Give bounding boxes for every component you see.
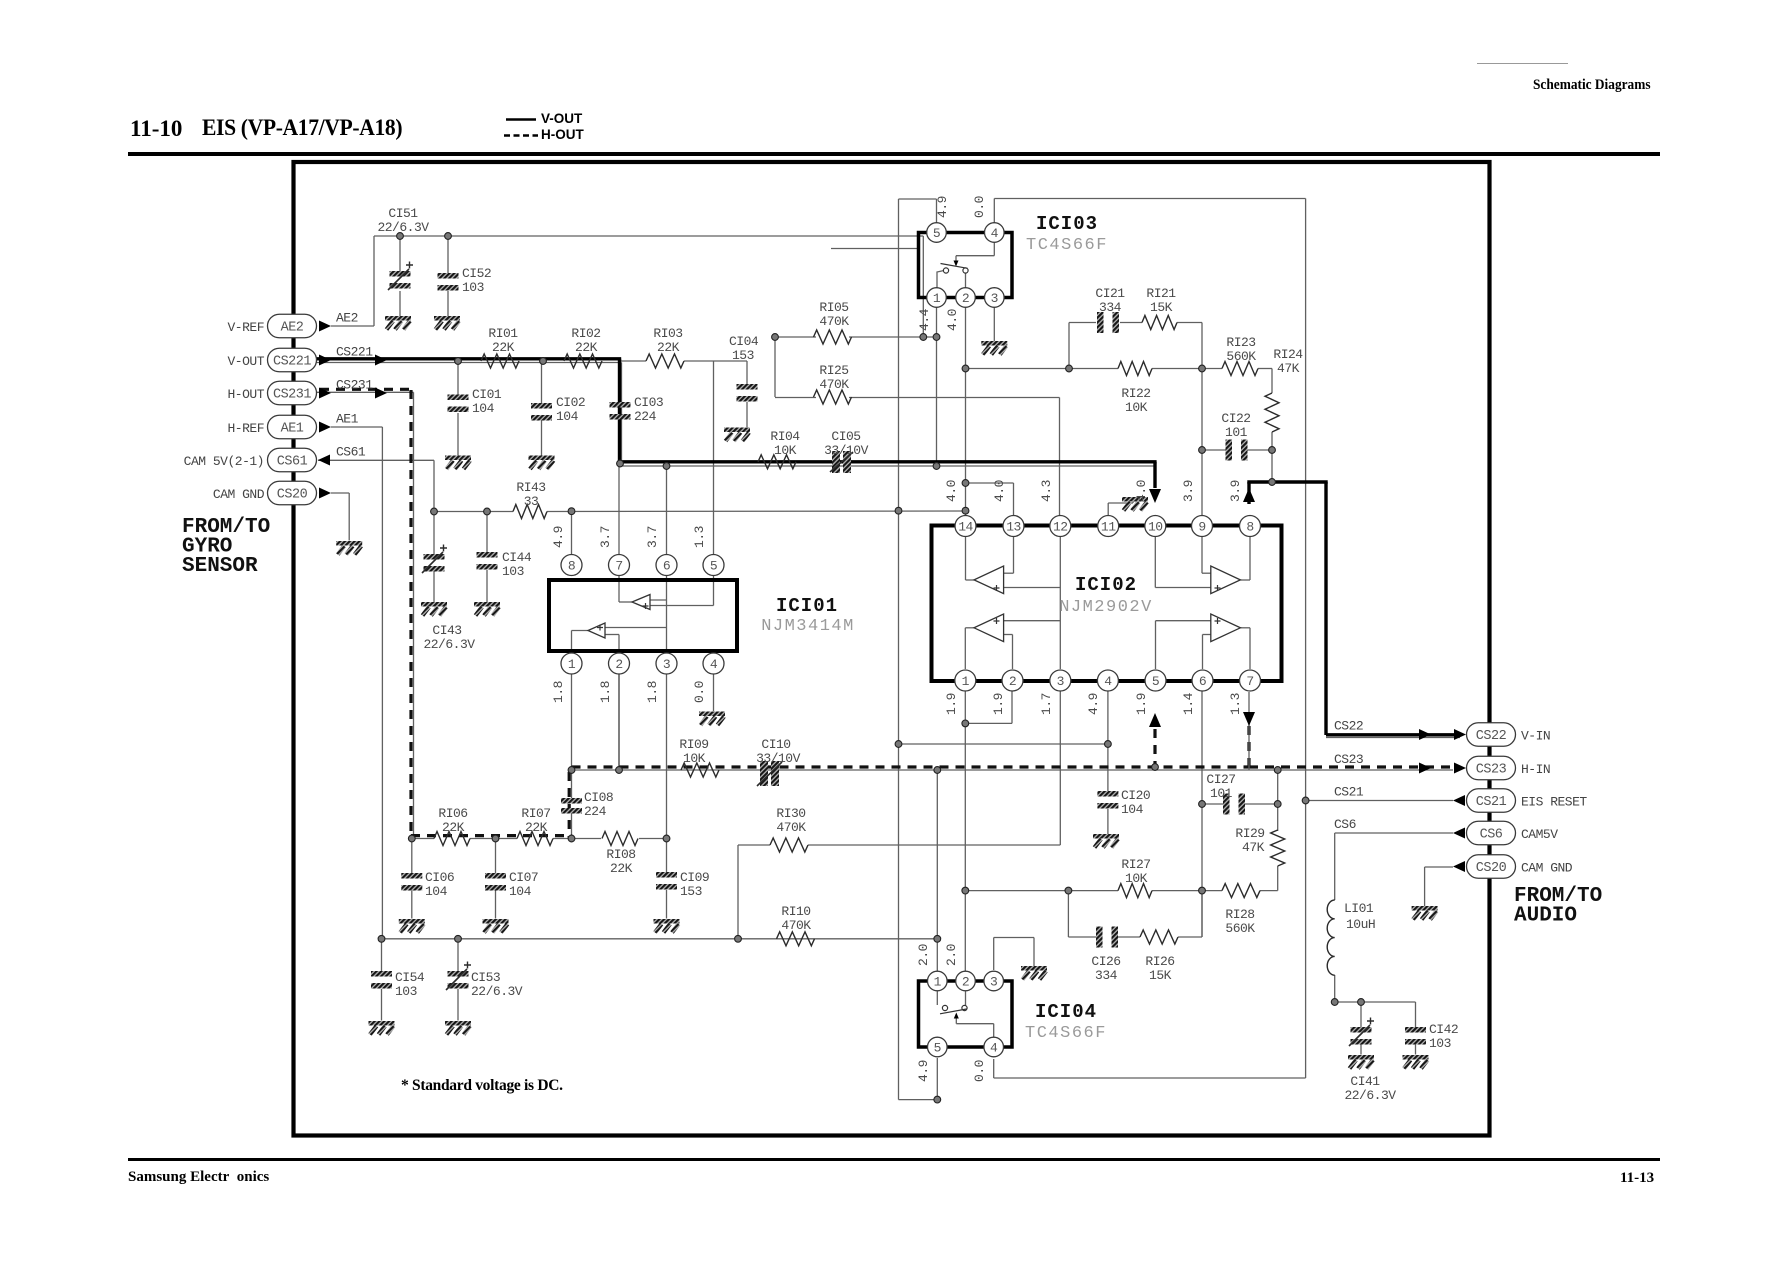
svg-text:470K: 470K bbox=[819, 377, 849, 392]
wire V-REF net AE2 to top rail bbox=[331, 236, 923, 337]
wire ICI01 pin1 riser bbox=[571, 675, 573, 771]
pin 13 ICI02 bbox=[1003, 516, 1024, 537]
wire CI01 stem bbox=[457, 361, 459, 456]
wire CI42 stem bbox=[1415, 1002, 1417, 1055]
svg-text:RI07: RI07 bbox=[521, 806, 550, 821]
svg-text:CI06: CI06 bbox=[425, 870, 454, 885]
svg-text:6: 6 bbox=[663, 558, 670, 573]
resistor RI06 bbox=[434, 806, 470, 846]
svg-text:1.7: 1.7 bbox=[1039, 693, 1054, 715]
svg-text:CS231: CS231 bbox=[273, 388, 311, 403]
pin 4 ICI01 bbox=[703, 653, 724, 674]
connector CS231 left bbox=[227, 378, 387, 405]
pin 1 ICI03 bbox=[927, 288, 947, 308]
op-amp ICI01 amp2 triangle bbox=[588, 623, 605, 638]
ground CI09 bbox=[654, 919, 680, 924]
svg-text:4.9: 4.9 bbox=[935, 196, 950, 218]
svg-text:0.0: 0.0 bbox=[972, 196, 987, 218]
svg-text:4: 4 bbox=[1104, 674, 1112, 689]
wire ICI02 pin12 pin3 riser bbox=[1004, 537, 1061, 669]
wire CI44 stem bbox=[486, 512, 488, 603]
node label FROM/TO AUDIO bbox=[1514, 885, 1602, 928]
svg-text:1.9: 1.9 bbox=[944, 693, 959, 715]
svg-text:CI10: CI10 bbox=[761, 737, 790, 752]
label ICI01 bbox=[761, 595, 855, 636]
op-amp ICI02 amp B triangle bbox=[1211, 566, 1241, 594]
junction dots CI41 row bbox=[1331, 999, 1364, 1006]
wire net CAM5V CS6 to LI01 bbox=[1335, 833, 1453, 1002]
svg-text:3.9: 3.9 bbox=[1228, 480, 1243, 502]
pin 11 ICI02 bbox=[1098, 516, 1119, 537]
wire CI27 row bbox=[1202, 770, 1278, 831]
svg-text:3.9: 3.9 bbox=[1181, 480, 1196, 502]
svg-text:224: 224 bbox=[584, 804, 607, 819]
wire ICI01 pin3 riser bbox=[666, 675, 668, 839]
svg-text:15K: 15K bbox=[1150, 300, 1173, 315]
svg-text:334: 334 bbox=[1099, 300, 1122, 315]
wire ICI04 pin1 riser H net bbox=[936, 770, 938, 971]
svg-text:13: 13 bbox=[1006, 519, 1021, 534]
connector CS23 right bbox=[1334, 752, 1550, 780]
svg-text:7: 7 bbox=[1246, 674, 1253, 689]
ground ICI03 pin3 bbox=[981, 307, 1007, 355]
svg-text:1: 1 bbox=[934, 974, 942, 989]
pin 6 ICI01 bbox=[656, 555, 677, 576]
connector CS21 right bbox=[1334, 785, 1587, 813]
svg-text:2: 2 bbox=[615, 657, 622, 672]
wire RI27 RI28 row bbox=[965, 866, 1277, 891]
capacitor CI20 bbox=[1097, 788, 1150, 817]
svg-text:2.0: 2.0 bbox=[944, 944, 959, 966]
junction dots CI27 row bbox=[1199, 801, 1282, 808]
legend H-OUT line bbox=[504, 134, 538, 137]
voltage labels ICI04 bbox=[916, 944, 987, 1082]
svg-text:10: 10 bbox=[1148, 519, 1163, 534]
capacitor CI05 on V-OUT bus bbox=[824, 429, 869, 473]
arrow out of ICI02 pin7 bbox=[1243, 692, 1255, 770]
pin 4 ICI02 bbox=[1097, 670, 1118, 691]
legend V-OUT line bbox=[506, 118, 536, 121]
label ICI04 bbox=[1025, 1001, 1107, 1043]
svg-text:RI29: RI29 bbox=[1235, 826, 1264, 841]
svg-text:560K: 560K bbox=[1226, 349, 1256, 364]
wire net V-OUT CS221 row bbox=[316, 363, 1155, 467]
svg-text:101: 101 bbox=[1210, 786, 1233, 801]
svg-text:RI06: RI06 bbox=[438, 806, 467, 821]
svg-text:1.4: 1.4 bbox=[1181, 692, 1196, 715]
svg-text:470K: 470K bbox=[776, 820, 806, 835]
ground CI04 bbox=[724, 428, 750, 433]
svg-text:22/6.3V: 22/6.3V bbox=[471, 984, 523, 999]
junction dots bias bus bbox=[378, 935, 941, 942]
svg-text:33: 33 bbox=[524, 494, 539, 509]
pin 2 ICI01 bbox=[609, 653, 630, 674]
pin 3 ICI04 bbox=[984, 971, 1004, 991]
svg-text:CAM GND: CAM GND bbox=[213, 487, 265, 502]
svg-text:5: 5 bbox=[1152, 674, 1159, 689]
junction dots ICI04 pin5 net bbox=[934, 1096, 941, 1103]
ground CI01 bbox=[445, 456, 471, 461]
svg-text:CI21: CI21 bbox=[1095, 286, 1125, 301]
junction dots RI05 RI25 bbox=[772, 334, 940, 341]
capacitor CI44 bbox=[477, 550, 532, 579]
svg-text:RI03: RI03 bbox=[653, 326, 682, 341]
junction dots supply row bbox=[895, 741, 1111, 748]
svg-text:RI43: RI43 bbox=[516, 480, 545, 495]
svg-text:47K: 47K bbox=[1242, 840, 1265, 855]
svg-text:H-IN: H-IN bbox=[1521, 762, 1550, 777]
wire ICI02 pin11 ground stub bbox=[1108, 501, 1133, 515]
svg-text:22K: 22K bbox=[657, 340, 680, 355]
junction dots V line bbox=[663, 463, 940, 470]
voltage labels ICI03 bbox=[917, 196, 987, 331]
capacitor CI41 polar bbox=[1344, 1018, 1396, 1104]
ground CAM GND left bbox=[336, 541, 362, 546]
svg-text:V-OUT: V-OUT bbox=[227, 354, 264, 369]
svg-text:101: 101 bbox=[1225, 425, 1248, 440]
voltage labels ICI01 bottom bbox=[551, 681, 707, 703]
svg-text:22K: 22K bbox=[610, 861, 633, 876]
svg-text:4.0: 4.0 bbox=[992, 480, 1007, 502]
svg-text:560K: 560K bbox=[1225, 921, 1255, 936]
op-amp ICI01 amp1 triangle bbox=[632, 595, 650, 610]
svg-text:104: 104 bbox=[556, 409, 579, 424]
svg-text:1.8: 1.8 bbox=[645, 681, 660, 703]
svg-text:3: 3 bbox=[990, 974, 997, 989]
svg-text:RI21: RI21 bbox=[1146, 286, 1176, 301]
svg-text:CI53: CI53 bbox=[471, 970, 500, 985]
svg-text:CI27: CI27 bbox=[1206, 772, 1235, 787]
wire ICI01 pin8 riser bbox=[571, 512, 573, 555]
svg-text:15K: 15K bbox=[1149, 968, 1172, 983]
svg-text:CS21: CS21 bbox=[1334, 785, 1364, 800]
svg-text:0.0: 0.0 bbox=[972, 1060, 987, 1082]
svg-text:103: 103 bbox=[1429, 1036, 1451, 1051]
resistor RI22 bbox=[1118, 362, 1152, 416]
resistor RI03 bbox=[646, 326, 684, 368]
svg-text:RI22: RI22 bbox=[1121, 386, 1150, 401]
capacitor CI26 bbox=[1091, 927, 1120, 984]
svg-text:5: 5 bbox=[710, 558, 717, 573]
pin 3 ICI03 bbox=[985, 288, 1005, 308]
svg-text:CI52: CI52 bbox=[462, 266, 491, 281]
svg-text:3.7: 3.7 bbox=[598, 526, 613, 548]
wire ICI01 opamp2 connections bbox=[572, 631, 620, 654]
svg-text:TC4S66F: TC4S66F bbox=[1025, 1024, 1107, 1043]
wire CI22 row bbox=[1202, 432, 1272, 482]
pin 9 ICI02 bbox=[1192, 516, 1213, 537]
svg-text:CI44: CI44 bbox=[502, 550, 532, 565]
svg-text:CS22: CS22 bbox=[1476, 729, 1507, 744]
capacitor CI51 bbox=[377, 206, 429, 290]
resistor RI43 bbox=[513, 480, 547, 519]
op-amp ICI02 amp D triangle bbox=[1211, 614, 1241, 642]
svg-text:RI27: RI27 bbox=[1121, 857, 1150, 872]
op-amp ICI02 amp C triangle bbox=[974, 614, 1004, 642]
resistor RI24 vertical bbox=[1265, 347, 1303, 432]
wire RI30 branch to ICI02 pin3 bbox=[738, 692, 1060, 939]
connector CS22 right bbox=[1334, 719, 1550, 747]
wire net H-OUT CS231 row bbox=[316, 392, 414, 838]
svg-text:5: 5 bbox=[933, 226, 940, 241]
pin 1 ICI04 bbox=[928, 971, 948, 991]
pin 7 ICI01 bbox=[609, 555, 630, 576]
wire ICI02 pin9 riser bbox=[1201, 369, 1203, 517]
svg-text:33/10V: 33/10V bbox=[824, 443, 869, 458]
svg-text:10K: 10K bbox=[683, 751, 706, 766]
capacitor CI01 bbox=[448, 387, 502, 416]
svg-text:RI01: RI01 bbox=[488, 326, 518, 341]
svg-text:AUDIO: AUDIO bbox=[1514, 905, 1577, 928]
ground CI42 bbox=[1403, 1055, 1429, 1060]
svg-text:CI22: CI22 bbox=[1221, 411, 1250, 426]
ground ICI01 pin4 bbox=[699, 712, 725, 717]
svg-text:1: 1 bbox=[933, 291, 941, 306]
resistor RI27 bbox=[1118, 857, 1152, 898]
pin 5 ICI01 bbox=[703, 555, 724, 576]
svg-text:CS20: CS20 bbox=[277, 488, 308, 503]
svg-text:334: 334 bbox=[1095, 968, 1118, 983]
op-amp ICI02 amp A triangle bbox=[974, 566, 1004, 594]
resistor RI21 bbox=[1142, 286, 1177, 330]
svg-text:CI20: CI20 bbox=[1121, 788, 1150, 803]
pin 8 ICI02 bbox=[1240, 516, 1261, 537]
svg-text:CS20: CS20 bbox=[1476, 861, 1507, 876]
capacitor CI04 bbox=[729, 334, 759, 402]
wire ICI02 pin1 riser to ICI04 pin2 bbox=[965, 692, 1012, 972]
svg-text:6: 6 bbox=[1199, 674, 1206, 689]
resistor RI02 bbox=[564, 326, 602, 368]
svg-text:104: 104 bbox=[472, 401, 495, 416]
svg-text:103: 103 bbox=[502, 564, 524, 579]
svg-text:3: 3 bbox=[1057, 674, 1064, 689]
ground CI51 bbox=[385, 316, 411, 321]
svg-text:CI42: CI42 bbox=[1429, 1022, 1458, 1037]
pin 4 ICI04 bbox=[984, 1037, 1004, 1057]
wire ICI02 opamp D connections bbox=[1156, 621, 1251, 669]
svg-text:103: 103 bbox=[462, 280, 484, 295]
wire ICI03 pin4 EIS-RESET net bbox=[994, 199, 1306, 1079]
svg-text:ICI04: ICI04 bbox=[1035, 1001, 1097, 1023]
wire CI53 stem bbox=[457, 939, 459, 1021]
svg-text:14: 14 bbox=[958, 519, 973, 534]
label ICI02 bbox=[1059, 574, 1153, 617]
wire ICI02 opamp A connections bbox=[966, 537, 1061, 588]
voltage labels ICI02 bottom bbox=[944, 692, 1243, 715]
ground CI43 bbox=[421, 602, 447, 607]
wire ICI01 pin5 riser to CI04 node bbox=[713, 361, 715, 555]
resistor RI28 bbox=[1222, 884, 1260, 936]
svg-text:RI08: RI08 bbox=[606, 847, 635, 862]
capacitor CI27 bbox=[1206, 772, 1245, 815]
wire RI25 row bbox=[775, 337, 1060, 516]
svg-text:RI10: RI10 bbox=[781, 904, 810, 919]
capacitor CI42 bbox=[1405, 1022, 1458, 1051]
pin 8 ICI01 bbox=[561, 555, 582, 576]
svg-text:V-REF: V-REF bbox=[227, 320, 264, 335]
svg-text:ICI02: ICI02 bbox=[1075, 574, 1137, 596]
wire stub near ICI03 bbox=[831, 248, 919, 250]
svg-text:CI03: CI03 bbox=[634, 395, 663, 410]
wire ICI01 opamp1 connections bbox=[605, 576, 714, 654]
junction dot ICI02 pin13 link bbox=[962, 480, 969, 487]
resistor RI25 bbox=[814, 363, 852, 404]
svg-text:4.4: 4.4 bbox=[917, 308, 932, 331]
svg-text:H-OUT: H-OUT bbox=[227, 387, 264, 402]
junction dots RI43 row bbox=[431, 507, 969, 515]
junction dots H row bbox=[568, 764, 1281, 774]
wire ICI02 opamp C connections bbox=[965, 628, 1012, 669]
junction dots ICI02 pin1 net bbox=[962, 720, 969, 727]
svg-text:22/6.3V: 22/6.3V bbox=[423, 637, 475, 652]
junction dots CI22 row bbox=[1199, 447, 1276, 486]
wire AE1 net bbox=[331, 427, 382, 939]
svg-text:4: 4 bbox=[990, 1040, 998, 1055]
ground CI06 bbox=[399, 919, 425, 924]
pin 4 ICI03 bbox=[985, 223, 1005, 243]
svg-text:1.8: 1.8 bbox=[551, 681, 566, 703]
ground CI02 bbox=[529, 456, 555, 461]
svg-text:8: 8 bbox=[568, 558, 575, 573]
svg-text:CS21: CS21 bbox=[1476, 795, 1507, 810]
connector CS20 right bbox=[1453, 855, 1573, 879]
svg-text:1.9: 1.9 bbox=[1134, 693, 1149, 715]
svg-text:10K: 10K bbox=[1125, 400, 1148, 415]
label ICI03 bbox=[1026, 213, 1108, 255]
wire RI05 row bbox=[775, 336, 937, 338]
arrow into ICI02 pin5 bbox=[1149, 713, 1161, 727]
svg-text:NJM3414M: NJM3414M bbox=[761, 617, 855, 636]
svg-text:224: 224 bbox=[634, 409, 657, 424]
svg-text:RI23: RI23 bbox=[1226, 335, 1255, 350]
junction dots RI22 row bbox=[962, 365, 1205, 372]
wire CI43 stem bbox=[433, 512, 435, 603]
wire ICI03 pin2 riser to ICI02 pin14 bbox=[965, 307, 967, 516]
connector AE1 left bbox=[227, 412, 358, 439]
resistor RI10 on bias bus bbox=[777, 904, 815, 946]
wire thick V-IN route ICI02 pin8 to CS22 bbox=[1247, 482, 1454, 735]
wire CI51 stem bbox=[399, 236, 401, 316]
wire ICI01 pin2 riser bbox=[618, 675, 620, 771]
svg-text:103: 103 bbox=[395, 984, 417, 999]
svg-text:4.0: 4.0 bbox=[1134, 480, 1149, 502]
wire net V-IN companion bbox=[1326, 737, 1460, 739]
wire ICI03 switch links bbox=[937, 271, 966, 289]
capacitor CI10 polar on H row bbox=[756, 737, 801, 786]
wire CI26 RI26 row bbox=[1068, 891, 1202, 937]
svg-text:4.9: 4.9 bbox=[551, 526, 566, 548]
svg-text:3.7: 3.7 bbox=[645, 526, 660, 548]
svg-text:CI09: CI09 bbox=[680, 870, 709, 885]
wire CI41 stem bbox=[1360, 1002, 1362, 1055]
capacitor CI21 bbox=[1095, 286, 1125, 333]
resistor RI08 bbox=[602, 832, 638, 877]
svg-text:8: 8 bbox=[1246, 519, 1253, 534]
svg-text:3: 3 bbox=[991, 291, 998, 306]
capacitor CI02 bbox=[531, 395, 585, 424]
wire H row to ICI02 bbox=[572, 769, 1454, 771]
svg-text:2: 2 bbox=[1009, 674, 1016, 689]
wire bias bus row bbox=[382, 938, 938, 940]
svg-text:4.0: 4.0 bbox=[944, 480, 959, 502]
capacitor CI52 bbox=[438, 266, 492, 295]
junction dot CS21 bbox=[1302, 797, 1309, 804]
svg-text:CI01: CI01 bbox=[472, 387, 502, 402]
svg-text:RI26: RI26 bbox=[1145, 954, 1174, 969]
switch ICI04 box bbox=[919, 981, 1013, 1047]
resistor RI01 bbox=[481, 326, 519, 368]
pin 10 ICI02 bbox=[1145, 516, 1166, 537]
resistor RI30 bbox=[770, 806, 808, 852]
ground CI53 bbox=[445, 1021, 471, 1026]
svg-text:EIS RESET: EIS RESET bbox=[1521, 795, 1587, 810]
pin 5 ICI02 bbox=[1145, 670, 1166, 691]
wire ICI02 pin13 link bbox=[966, 483, 1014, 516]
svg-text:4: 4 bbox=[991, 226, 999, 241]
svg-text:7: 7 bbox=[615, 558, 622, 573]
arrow into ICI02 pin10 bbox=[1149, 489, 1161, 503]
junction dots CS221 row bbox=[455, 358, 624, 467]
ground CI20 bbox=[1093, 834, 1119, 839]
junction dots RI06 row bbox=[408, 835, 669, 842]
svg-text:SENSOR: SENSOR bbox=[182, 555, 258, 578]
wire CI08 stem bbox=[571, 770, 573, 839]
connector CS20 left bbox=[213, 481, 331, 505]
wire CI02 stem bbox=[541, 361, 543, 456]
voltage labels ICI01 top bbox=[551, 526, 707, 548]
svg-text:AE2: AE2 bbox=[281, 321, 304, 336]
svg-text:9: 9 bbox=[1198, 519, 1205, 534]
pin 2 ICI04 bbox=[956, 971, 976, 991]
svg-text:10uH: 10uH bbox=[1346, 917, 1375, 932]
schematic border frame bbox=[294, 162, 1490, 1136]
wire ICI04 pin5 riser bbox=[936, 1058, 938, 1100]
svg-text:104: 104 bbox=[1121, 802, 1144, 817]
op-amp ICI02 box bbox=[932, 526, 1282, 682]
ground CAM GND right bbox=[1412, 906, 1438, 911]
svg-text:1.8: 1.8 bbox=[598, 681, 613, 703]
svg-text:22K: 22K bbox=[442, 820, 465, 835]
wire ICI01 pin6 riser bbox=[666, 466, 668, 555]
svg-text:TC4S66F: TC4S66F bbox=[1026, 236, 1108, 255]
svg-text:RI05: RI05 bbox=[819, 300, 848, 315]
capacitor CI43 bbox=[422, 545, 475, 653]
wire ICI02 pin6 riser bbox=[1201, 692, 1203, 938]
resistor RI26 bbox=[1140, 930, 1178, 983]
svg-text:RI09: RI09 bbox=[679, 737, 708, 752]
svg-text:10K: 10K bbox=[1125, 871, 1148, 886]
arrow out of ICI02 pin8 bbox=[1243, 488, 1255, 502]
wire CI54 stem bbox=[381, 939, 383, 1021]
svg-text:RI25: RI25 bbox=[819, 363, 848, 378]
svg-text:CS6: CS6 bbox=[1334, 817, 1356, 832]
node label FROM/TO GYRO SENSOR bbox=[182, 516, 270, 578]
svg-text:470K: 470K bbox=[781, 918, 811, 933]
wire RI22 RI23 row bbox=[966, 369, 1273, 394]
svg-text:RI30: RI30 bbox=[776, 806, 805, 821]
pin 1 ICI02 bbox=[955, 670, 976, 691]
ground CI07 bbox=[483, 919, 509, 924]
svg-text:10K: 10K bbox=[774, 443, 797, 458]
svg-text:22K: 22K bbox=[575, 340, 598, 355]
svg-text:LI01: LI01 bbox=[1344, 901, 1374, 916]
ground CI52 bbox=[434, 316, 460, 321]
switch symbol ICI04 bbox=[940, 1005, 994, 1036]
pin 7 ICI02 bbox=[1240, 670, 1261, 691]
connector AE2 left bbox=[227, 311, 357, 338]
resistor RI05 bbox=[814, 300, 852, 344]
connector CS61 left bbox=[184, 445, 366, 472]
